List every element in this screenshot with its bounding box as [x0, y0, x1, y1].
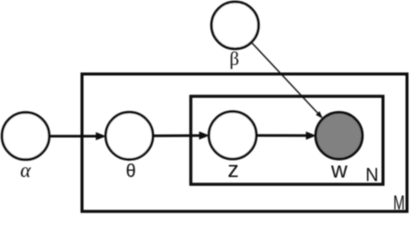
plate N (inner rectangle) [191, 96, 383, 184]
node theta (circle) [106, 112, 153, 159]
wire arrow beta to w (diagonal) [252, 43, 323, 119]
wire arrow theta to z [153, 131, 210, 139]
svg-text:w: w [330, 158, 348, 183]
svg-text:M: M [393, 192, 405, 214]
svg-text:β: β [229, 49, 239, 70]
plate M (outer rectangle) [82, 74, 407, 211]
svg-text:θ: θ [126, 161, 136, 181]
node alpha (circle) [2, 112, 49, 159]
node beta (circle) [212, 2, 259, 49]
svg-text:z: z [228, 157, 239, 182]
node z (circle) [209, 112, 256, 159]
node w (shaded circle) [316, 112, 363, 159]
svg-text:N: N [366, 165, 379, 185]
wire arrow alpha to theta [49, 132, 106, 140]
wire arrow z to w [256, 132, 316, 140]
svg-text:α: α [20, 160, 31, 182]
